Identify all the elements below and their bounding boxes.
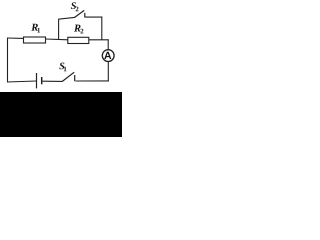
- resistor R2: [68, 37, 89, 43]
- wire: top rail left to R1: [7, 37, 24, 39]
- wire: S2 branch right segment: [85, 16, 103, 18]
- ammeter A: [102, 50, 114, 62]
- label S1: [59, 63, 64, 70]
- switch S1 right contact tick: [74, 75, 76, 81]
- label R1: [31, 24, 38, 31]
- wire: battery to S1 pivot: [43, 80, 63, 82]
- wire: drop to ammeter: [107, 39, 109, 49]
- resistor R1: [24, 37, 46, 43]
- battery short plate (negative): [41, 77, 43, 84]
- wire: S2 branch left segment: [58, 17, 74, 19]
- black bar at bottom: [0, 92, 122, 137]
- switch S2 blade: [74, 10, 84, 17]
- node: left junction vertical (S2 branch tap): [58, 19, 60, 39]
- wire: bottom rail right segment: [76, 80, 109, 82]
- switch S1 blade: [62, 72, 74, 81]
- wire: ammeter to bottom rail: [107, 61, 109, 81]
- switch S2 right contact tick: [84, 13, 86, 18]
- wire: rail R1 to left junction to R2: [46, 38, 68, 41]
- node: right junction vertical: [101, 17, 103, 40]
- wire: rail R2 to top-right corner: [89, 39, 109, 41]
- wire: left vertical side: [7, 38, 9, 82]
- wire: bottom rail left segment: [7, 81, 36, 82]
- label S2: [71, 2, 76, 9]
- battery long plate (positive): [36, 73, 38, 88]
- label R2: [74, 25, 81, 32]
